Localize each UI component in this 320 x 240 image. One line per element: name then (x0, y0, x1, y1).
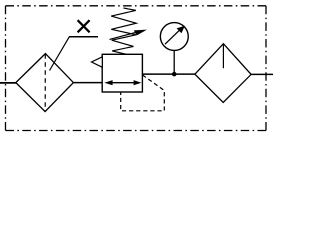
regulator flow double arrow (104, 80, 141, 85)
wire inlet (0, 82, 17, 84)
leader line (50, 37, 70, 71)
label X (78, 20, 90, 32)
lubricator L1 (195, 44, 251, 103)
adjustment arrow (110, 30, 148, 40)
spring (111, 8, 136, 54)
regulator R1 body (102, 54, 142, 92)
filter F1 (16, 54, 74, 112)
vent triangle (92, 57, 103, 68)
filter element (dashed) (44, 54, 46, 111)
lubricator drip line (222, 44, 224, 68)
wire filter to regulator (73, 82, 102, 84)
enclosure chain border (6, 6, 267, 131)
pressure gauge G1 (160, 23, 188, 51)
wire regulator outlet (142, 73, 195, 75)
wire gauge stem (173, 50, 175, 74)
label underline (69, 36, 98, 38)
wire outlet (251, 73, 273, 75)
gauge needle arrow (165, 26, 185, 44)
pilot feedback line (dashed) (121, 75, 165, 111)
node junction dot (172, 72, 177, 77)
